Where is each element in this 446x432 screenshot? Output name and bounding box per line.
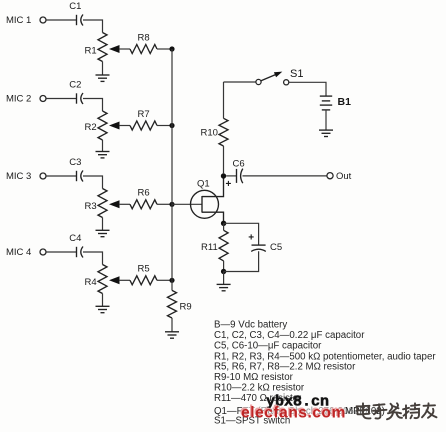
wire MIC 4 to C4 — [46, 251, 76, 253]
电 — [357, 403, 371, 418]
svg-text:R4: R4 — [85, 277, 97, 288]
ground — [96, 75, 110, 81]
node Out terminal — [327, 173, 333, 179]
wire bus to Q1 gate — [172, 203, 202, 205]
svg-text:R2: R2 — [85, 122, 97, 133]
junction R5/bus — [169, 278, 174, 283]
wire R7 to bus — [157, 125, 172, 127]
wire C5 to R11 bottom — [224, 251, 259, 271]
watermark chinese slogan 电子发烧友 — [357, 403, 437, 419]
发 — [387, 403, 402, 419]
svg-text:C1: C1 — [69, 1, 81, 12]
svg-text:R8: R8 — [138, 32, 150, 43]
svg-text:R5: R5 — [138, 264, 150, 275]
svg-text:MIC 1: MIC 1 — [6, 15, 31, 26]
svg-text:S1: S1 — [290, 68, 303, 80]
svg-text:MIC 4: MIC 4 — [6, 247, 31, 258]
svg-text:MIC 2: MIC 2 — [6, 94, 31, 105]
svg-text:R10: R10 — [201, 127, 218, 138]
wire R11 bottom to ground — [223, 272, 225, 285]
svg-text:B—9 Vdc battery: B—9 Vdc battery — [214, 319, 287, 330]
wire R10 to S1 — [224, 81, 256, 83]
wire R5 to bus — [157, 279, 172, 281]
svg-text:R6: R6 — [138, 188, 150, 199]
wire summing bus — [171, 49, 173, 280]
友 — [422, 403, 437, 418]
junction R11 bottom / C5 return — [221, 269, 226, 274]
ground — [217, 284, 231, 290]
svg-text:R9: R9 — [180, 302, 192, 313]
svg-text:R10—2.2 kΩ resistor: R10—2.2 kΩ resistor — [214, 383, 305, 394]
svg-text:MIC 3: MIC 3 — [6, 171, 31, 182]
svg-text:Q1: Q1 — [197, 178, 210, 189]
wire MIC 3 to C3 — [46, 175, 76, 177]
svg-text:elecfans.com: elecfans.com — [241, 404, 346, 421]
junction R6/bus — [169, 202, 174, 207]
wire C4 to R4 top — [83, 252, 103, 265]
wire S1 to B1 — [289, 82, 326, 96]
wire C2 to R2 top — [83, 99, 103, 112]
wire C3 to R3 top — [83, 176, 103, 189]
svg-text:R3: R3 — [85, 201, 97, 212]
svg-text:C5: C5 — [270, 242, 282, 253]
svg-text:+: + — [248, 233, 254, 244]
junction Q1 drain / R10 / C6 — [221, 173, 226, 178]
junction R7/bus — [169, 123, 174, 128]
transistor Q1 (FET) — [191, 178, 224, 221]
ground — [96, 152, 110, 158]
svg-text:C3: C3 — [69, 157, 81, 168]
wire R8 to bus — [157, 48, 172, 50]
junction Q1 source / R11 / C5 — [221, 221, 226, 226]
wire R6 to bus — [157, 203, 172, 205]
svg-text:Out: Out — [336, 171, 352, 182]
svg-text:C4: C4 — [69, 233, 81, 244]
子 — [373, 404, 387, 418]
ground — [165, 332, 179, 338]
svg-text:C6: C6 — [233, 159, 245, 170]
svg-text:C2: C2 — [69, 80, 81, 91]
wire MIC 2 to C2 — [46, 98, 76, 100]
svg-text:+: + — [226, 179, 232, 190]
svg-text:R1: R1 — [85, 46, 97, 57]
ground — [319, 130, 333, 136]
junction R8/bus — [169, 46, 174, 51]
battery B1 — [320, 96, 351, 110]
svg-text:R5, R6, R7, R8—2.2 MΩ resistor: R5, R6, R7, R8—2.2 MΩ resistor — [214, 362, 356, 373]
svg-text:R7: R7 — [138, 109, 150, 120]
wire source to C5 — [224, 223, 259, 245]
wire C1 to R1 top — [83, 20, 103, 33]
svg-text:R9-10 MΩ resistor: R9-10 MΩ resistor — [214, 372, 294, 383]
svg-text:R11: R11 — [201, 242, 218, 253]
烧 — [403, 403, 420, 418]
svg-text:C5, C6-10—μF capacitor: C5, C6-10—μF capacitor — [214, 340, 322, 351]
wire C6 to Out — [243, 175, 327, 177]
wire B1 to ground — [325, 110, 327, 130]
wire MIC 1 to C1 — [46, 19, 76, 21]
ground — [96, 306, 110, 312]
svg-text:B1: B1 — [338, 96, 352, 108]
ground — [96, 230, 110, 236]
